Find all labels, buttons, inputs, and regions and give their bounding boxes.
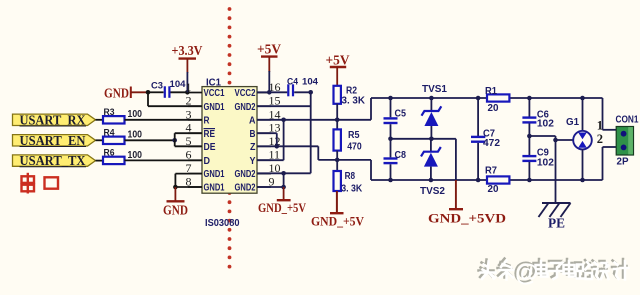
svg-text:Z: Z [250,141,256,153]
wire TVS centre line [391,138,456,140]
svg-text:RE: RE [204,128,216,140]
resistor R5 [334,129,341,150]
junction C4/GND2 corner [308,90,313,95]
wire C4 to GND2 line [294,91,311,93]
wire net B to corner [337,159,371,161]
wire R3 to IC1 pin3 [125,119,203,121]
junction C7 bottom [476,178,481,183]
svg-text:GND1: GND1 [204,101,225,113]
power port GND_+5V (below pin9) [258,187,306,215]
svg-text:VCC2: VCC2 [235,87,256,99]
capacitor C6 [522,118,536,123]
wire CON1 pin2 [603,146,617,148]
surge arrester G1 [573,131,592,150]
junction RE/DE tie [172,138,177,143]
junction C7 top [476,96,481,101]
wire pin14 A [257,119,337,121]
junction PE/G1 [553,138,558,143]
wire C5 bottom lead [390,124,392,139]
junction GND/C3 [146,90,151,95]
wire GND to junction [131,91,148,93]
svg-text:2: 2 [597,132,603,146]
wire C3 to pin1 node [171,91,188,93]
svg-text:R1: R1 [485,86,498,97]
junction G1 bottom [580,178,585,183]
wire rail to CON1 pin1 vertical [602,98,604,130]
capacitor C8 [384,159,398,164]
op-amp/transceiver IC1 body [202,87,257,194]
svg-text:Y: Y [250,155,256,167]
wire CON1 pin2 vertical [602,147,604,180]
resistor R3 [103,107,125,124]
junction C5 top [388,96,393,101]
svg-text:R4: R4 [104,127,116,138]
junction R2/R5 net A [335,118,340,123]
svg-text:2: 2 [186,94,192,108]
wire bottom rail net B [371,179,603,181]
wire centre line corner down [455,139,457,181]
svg-text:IS03080: IS03080 [205,218,240,229]
svg-text:R7: R7 [485,166,498,177]
svg-text:104: 104 [170,79,187,90]
wire junction to R5 [336,120,338,130]
IC1 right pin stubs [257,93,271,188]
TVS diode TVS1 [422,106,442,126]
wire junction to R8 [336,160,338,171]
svg-text:+5V: +5V [326,53,350,68]
svg-text:C8: C8 [395,150,407,161]
capacitor C7 [471,137,485,142]
wire pin15 GND2 [257,105,311,107]
svg-text:@: @ [515,260,538,287]
resistor R8 [334,171,341,191]
junction C5/C8 mid [388,137,393,142]
wire to IC1 pin4 RE [175,132,202,134]
wire TVS2 bottom lead [430,167,432,180]
wire to IC1 pin5 DE [175,145,202,147]
junction R5/R8 net B [335,158,340,163]
wire tag TX to R6 [96,160,104,162]
capacitor C5 [384,118,398,123]
junction +5V/VCC2 [267,90,272,95]
wire tag RX to R3 [96,119,104,121]
svg-text:GND1: GND1 [204,168,225,180]
svg-text:470: 470 [347,141,362,152]
svg-text:20: 20 [488,184,500,195]
IC1 pin name RE [204,128,216,140]
wire tag EN to R4 [96,139,104,141]
wire A-Y vertical [283,120,285,160]
svg-text:102: 102 [537,119,555,130]
svg-text:R3: R3 [104,107,115,118]
wire C8 top lead [390,139,392,158]
svg-text:GND2: GND2 [235,182,256,194]
wire net A to corner [337,119,371,121]
svg-text:B: B [250,128,256,140]
resistor R1 [487,94,509,101]
wire +3.3V to VCC1 [186,72,188,92]
power port GND_+5VD [428,180,506,226]
wire mid to PE corner [529,135,555,137]
earth ground PE [539,203,571,217]
svg-text:TVS1: TVS1 [422,84,447,95]
net tag USART_EN [13,133,96,148]
svg-text:3. 3K: 3. 3K [341,184,362,195]
svg-text:R: R [204,114,210,126]
wire pin9 GND2 [257,186,284,188]
power port +5V (bias) [326,53,350,86]
wire pin16 to C4 [257,91,287,93]
wire C6 bottom lead [528,124,530,137]
svg-text:USART_EN: USART_EN [20,133,86,148]
junction C6/C9 mid [527,134,532,139]
svg-text:C5: C5 [395,109,407,120]
svg-text:A: A [249,114,256,126]
svg-text:3. 3K: 3. 3K [342,96,366,107]
svg-text:20: 20 [488,103,500,114]
svg-text:DE: DE [204,141,216,153]
wire C8 bottom lead [390,164,392,180]
wire pin10 to pin9 vertical [283,173,285,187]
svg-text:6: 6 [186,148,192,162]
svg-text:100: 100 [128,150,143,161]
junction A/Y [281,118,286,123]
wire GND2 vertical [310,92,312,173]
svg-text:GND1: GND1 [204,182,225,194]
svg-text:R5: R5 [348,130,360,141]
wire pin10 GND2 [257,172,311,174]
junction TVS1 top [429,96,434,101]
wire junction vertical RE-DE [174,133,176,146]
svg-text:102: 102 [537,157,555,168]
svg-text:2P: 2P [617,157,629,168]
svg-text:G1: G1 [566,117,579,128]
junction C6 top [527,96,532,101]
junction pin10 [281,171,286,176]
svg-text:472: 472 [483,138,501,149]
junction G1 top [580,96,585,101]
capacitor C9 [522,156,536,161]
svg-text:R8: R8 [345,171,356,182]
wire Z to R5/R8 junction [318,159,337,161]
svg-text:USART_TX: USART_TX [20,153,86,168]
resistor R2 [334,86,341,104]
wire G1 top lead [582,98,584,131]
wire G1 bottom lead [582,149,584,180]
wire pin11 Y [257,159,284,161]
wire to IC1 pin2 [148,105,202,107]
capacitor C4 [288,84,293,96]
svg-text:R6: R6 [104,147,115,158]
svg-text:GND_+5V: GND_+5V [311,215,364,229]
svg-text:+3.3V: +3.3V [172,43,203,58]
svg-text:PE: PE [548,216,565,231]
wire pin7 left [175,173,202,175]
wire PE vertical [555,136,557,203]
resistor R6 [103,147,125,164]
svg-text:100: 100 [128,109,143,120]
svg-text:C3: C3 [151,81,163,92]
svg-text:VCC1: VCC1 [204,87,225,99]
wire net B down [370,160,372,180]
net tag USART_RX [13,112,96,127]
resistor R7 [487,176,509,183]
svg-text:1: 1 [597,119,603,133]
junction C8 bottom [388,178,393,183]
wire junction to C3 [148,91,164,93]
svg-text:4: 4 [186,121,192,135]
junction pin9 [281,185,286,190]
svg-text:GND2: GND2 [235,101,256,113]
wire PE to G1 [556,139,574,141]
svg-text:GND_+5V: GND_+5V [258,201,306,215]
TVS diode TVS2 [421,147,441,167]
wire C6 top lead [528,98,530,117]
junction C9 bottom [527,178,532,183]
power port +5V (VCC2) [257,42,281,93]
junction TVS2 bottom [429,178,434,183]
net tag USART_TX [13,153,96,168]
svg-text:104: 104 [302,77,319,88]
wire CON1 pin1 [603,129,617,131]
wire TVS2 top lead [430,139,432,152]
svg-text:USART_RX: USART_RX [20,112,86,127]
watermark 头条@电子电路设计 [481,260,629,287]
wire GND down [147,92,149,106]
svg-text:D: D [204,155,211,167]
wire C5 top lead [390,98,392,117]
wire C9 bottom lead [528,162,530,180]
IC1 left pin stubs [188,93,202,188]
svg-text:GND: GND [163,203,188,218]
junction pin8 GND [173,185,178,190]
wire Z step down [317,146,319,160]
wire net A up [370,98,372,120]
wire pin8 [175,186,202,188]
power port GND (below pin8) [163,187,188,218]
svg-text:1: 1 [186,80,192,94]
wire C7 top lead [477,98,479,136]
svg-text:TVS2: TVS2 [420,186,445,197]
wire pin13 B [257,132,277,134]
svg-text:3: 3 [186,107,192,121]
wire pin12 Z [257,145,318,147]
svg-text:+5V: +5V [257,42,281,57]
wire R6 to IC1 pin6 [125,159,203,161]
svg-text:CON1: CON1 [616,114,639,125]
wire B down to Z [276,133,278,146]
capacitor C3 [165,86,170,98]
svg-text:5: 5 [186,134,192,148]
svg-text:GND2: GND2 [235,168,256,180]
wire C9 top lead [528,136,530,155]
wire R4 to junction [125,139,175,141]
wire top rail net A [371,97,603,99]
svg-text:GND: GND [104,86,129,101]
junction B/Z [275,144,280,149]
power port GND (left) [104,86,131,101]
junction TVS1/TVS2 mid [429,137,434,142]
wire TVS1 top lead [430,98,432,111]
wire pin7-pin8 vertical [174,174,176,187]
label 串口 (serial port) [22,173,59,194]
power port +3.3V [172,43,203,73]
isolation barrier dotted line [228,7,232,268]
power port GND_+5V (below R8) [311,191,364,229]
wire R2 to junction [336,104,338,120]
svg-text:100: 100 [128,130,143,141]
svg-text:C4: C4 [287,77,299,88]
svg-text:GND_+5VD: GND_+5VD [428,212,506,226]
connector CON1 [616,127,633,156]
junction +3.3V/VCC1 [185,90,190,95]
wire C7 bottom lead [477,143,479,180]
wire TVS1 bottom lead [430,126,432,139]
resistor R4 [103,127,125,144]
wire R5 to junction [336,151,338,160]
